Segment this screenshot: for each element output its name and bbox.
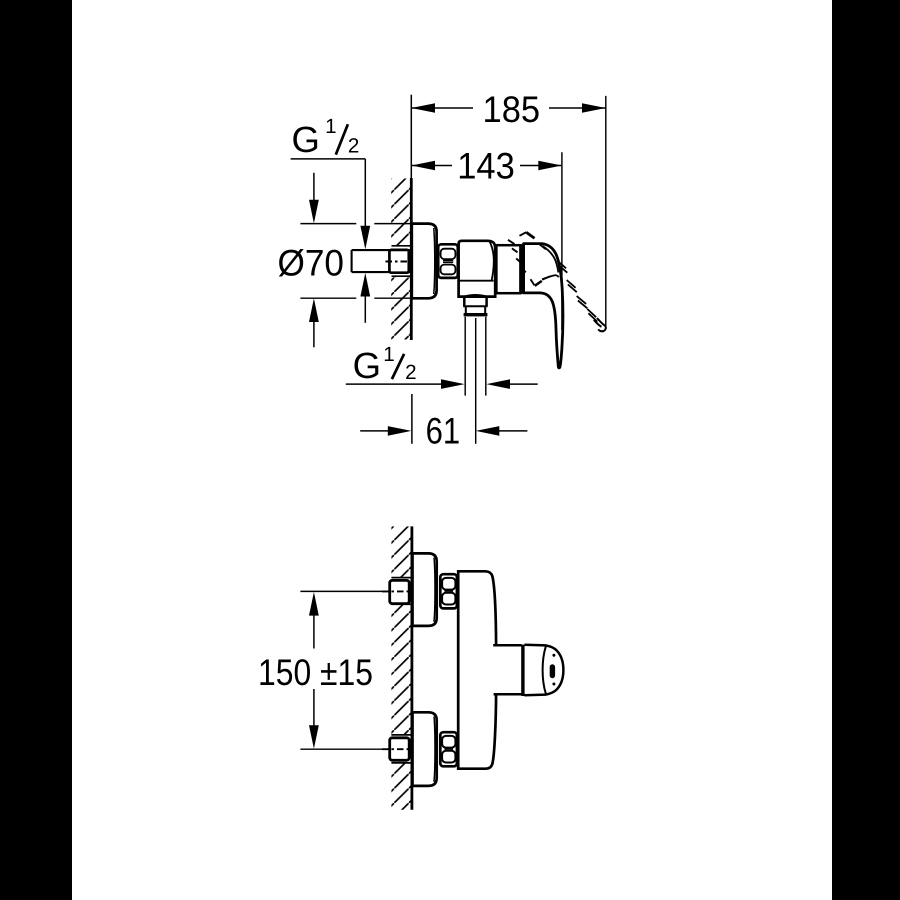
G 1/2 bottom right arrow [508, 383, 538, 385]
svg-text:1: 1 [383, 343, 394, 366]
G 1/2 bottom label leader [346, 383, 442, 385]
dimension 185 line [411, 107, 473, 109]
rosette (escutcheon) side view [412, 224, 437, 299]
S-union hex nut [438, 244, 458, 278]
wall hole edges lower [391, 734, 412, 736]
dia70 bottom extension line [300, 297, 356, 299]
svg-text:1: 1 [325, 115, 336, 138]
outlet neck plan [493, 644, 521, 647]
joint thick line [520, 244, 523, 294]
svg-text:185: 185 [483, 89, 541, 130]
G 1/2 pipe lower arrow [364, 294, 366, 323]
wall edge thick [410, 178, 413, 340]
dashed hub bottom corner [535, 281, 542, 286]
dashed lever hub bottom fillet [542, 275, 559, 279]
pipe centerline dash-dot [386, 261, 412, 263]
hex nut middle lens [443, 260, 453, 262]
lever blade highlight line [543, 246, 559, 273]
body parting line [459, 280, 494, 282]
svg-text:150 ±15: 150 ±15 [258, 652, 373, 693]
lower rosette [413, 712, 437, 786]
svg-text:2: 2 [405, 361, 416, 384]
svg-text:61: 61 [426, 410, 461, 451]
dimension 143 line [411, 165, 452, 167]
lever open position (dashed) hub peak [520, 232, 527, 236]
upper pipe centerline dash-dot [382, 590, 411, 592]
dashed hub-blade inner edge (rotated) [508, 240, 534, 285]
cap and lever (closed, solid) [524, 244, 563, 368]
pipe square nut [389, 250, 408, 273]
150 dim extension line lower [300, 748, 387, 750]
svg-text:G: G [292, 119, 320, 160]
body dome arc [490, 241, 494, 280]
dia70 top extension line [300, 223, 356, 225]
dashed lever tip curl [597, 318, 606, 331]
outlet centerline [475, 318, 477, 444]
svg-text:2: 2 [348, 135, 359, 158]
svg-text:143: 143 [457, 146, 515, 187]
dia70 top arrow [313, 173, 315, 202]
dia70 bottom arrow [313, 320, 315, 347]
dimension 143 right extension line [561, 152, 563, 330]
outlet neck [463, 297, 466, 306]
outlet nut [465, 306, 467, 313]
outlet fillet arc [463, 295, 488, 297]
hex nut facet bottom [441, 265, 456, 275]
outlet nut dark band [464, 313, 488, 316]
wall edge thick [410, 526, 413, 809]
outlet thread extension lines [464, 317, 466, 396]
wall line thin lower (extension for 61) [411, 394, 413, 444]
lower square nut [390, 738, 410, 761]
outlet joint thick line [521, 645, 524, 696]
outlet slot [550, 664, 555, 678]
150 dim extension line upper [300, 590, 387, 592]
outlet end face left arc [543, 646, 546, 693]
wall hatching upper [391, 179, 411, 246]
lower hex nut [440, 732, 457, 766]
dimension 61 line [360, 430, 389, 432]
upper square nut [390, 580, 410, 603]
dashed lever blade segments [540, 244, 598, 321]
rosette inner edge line [433, 228, 436, 294]
left black bar [0, 0, 72, 900]
svg-text:Ø70: Ø70 [278, 242, 345, 283]
right black bar [832, 0, 900, 900]
outlet face dots [552, 654, 555, 657]
wall hatching middle [391, 604, 412, 735]
wall hatching top [391, 526, 412, 577]
cartridge sleeve [496, 245, 520, 293]
G 1/2 top label leader [291, 158, 366, 160]
hex nut facet top [441, 249, 456, 259]
wall hatching bottom [391, 763, 412, 810]
svg-text:G: G [353, 345, 381, 386]
wall hatching lower [391, 276, 411, 339]
dimension 185 right extension line [605, 96, 607, 329]
wall hole edges upper [391, 577, 412, 579]
valve body [459, 241, 496, 297]
upper rosette [413, 553, 437, 626]
wall hole top edge [392, 245, 412, 247]
mixer body plan outline [458, 571, 496, 768]
wall hole bottom edge [392, 275, 412, 277]
lower pipe centerline dash-dot [382, 748, 411, 750]
outlet cap outline [524, 645, 563, 696]
upper hex nut [440, 574, 457, 608]
supply pipe stub [352, 250, 412, 272]
wall line thin upper (extension for 185/143) [410, 95, 412, 179]
dimension 150 vertical line [313, 614, 315, 649]
